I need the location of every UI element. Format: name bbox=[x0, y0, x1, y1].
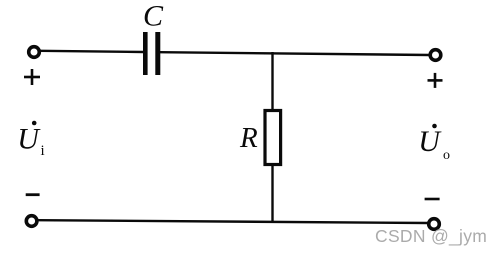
node label U_i (input voltage) bbox=[17, 121, 44, 159]
top wire (left segment, input terminal to capacitor) bbox=[40, 51, 144, 52]
wire (vertical branch, resistor to bottom wire) bbox=[271, 164, 273, 222]
svg-text:U: U bbox=[17, 123, 41, 156]
node label U_o (output voltage) bbox=[418, 124, 450, 163]
svg-text:U: U bbox=[418, 125, 442, 158]
input terminal (bottom left, open circle) bbox=[26, 216, 37, 227]
svg-text:o: o bbox=[443, 148, 450, 163]
svg-text:C: C bbox=[143, 0, 164, 32]
minus polarity mark (input) bbox=[26, 193, 40, 196]
input terminal (top left, open circle) bbox=[29, 47, 40, 58]
capacitor C right plate bbox=[155, 32, 160, 75]
capacitor C left plate bbox=[143, 32, 148, 75]
output terminal (top right, open circle) bbox=[430, 50, 441, 61]
output terminal (bottom right, open circle) bbox=[429, 219, 440, 230]
plus polarity mark (output) bbox=[428, 73, 443, 88]
bottom wire bbox=[39, 220, 428, 223]
svg-text:R: R bbox=[239, 122, 258, 154]
top wire (right segment, capacitor to output terminal) bbox=[160, 52, 430, 55]
wire (vertical branch, top wire to resistor) bbox=[271, 52, 273, 111]
plus polarity mark (input) bbox=[24, 69, 40, 85]
svg-text:CSDN @_jym: CSDN @_jym bbox=[375, 226, 487, 247]
resistor R body bbox=[265, 111, 281, 165]
svg-text:i: i bbox=[41, 143, 45, 159]
minus polarity mark (output) bbox=[425, 198, 440, 201]
